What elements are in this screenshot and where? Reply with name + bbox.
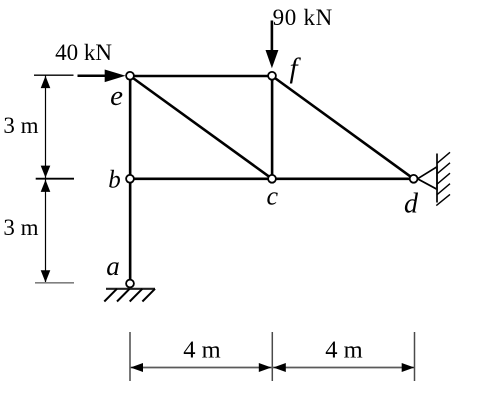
dimension line left (vertical) bbox=[45, 75, 47, 283]
svg-text:d: d bbox=[404, 188, 419, 219]
dim tick bottom bbox=[35, 282, 74, 284]
svg-text:3 m: 3 m bbox=[3, 215, 38, 240]
node c bbox=[268, 175, 276, 183]
dim arrowhead right at x=272 (left span) bbox=[259, 363, 272, 372]
force arrow 90 kN bbox=[266, 21, 279, 69]
svg-text:4 m: 4 m bbox=[325, 336, 362, 363]
dim arrowhead down at a level bbox=[41, 270, 51, 282]
node b bbox=[126, 175, 134, 183]
extension line below c/f column bbox=[271, 332, 273, 381]
dim tick top bbox=[34, 74, 74, 76]
dim arrowhead left at x=130 bbox=[131, 363, 144, 372]
extension line below d bbox=[414, 332, 416, 381]
pin support at a: hatching bbox=[104, 289, 155, 302]
dimension line bottom (horizontal) bbox=[130, 367, 415, 369]
node a bbox=[126, 280, 134, 288]
dim arrowhead down at b level bbox=[41, 166, 51, 178]
svg-text:b: b bbox=[108, 166, 121, 193]
svg-text:3 m: 3 m bbox=[3, 113, 38, 138]
pin support at a: ground line bbox=[106, 288, 155, 290]
node e bbox=[126, 72, 134, 80]
roller support at d: wall bbox=[436, 154, 438, 203]
dim tick middle bbox=[36, 178, 74, 180]
dim arrowhead right at x=414.5 bbox=[402, 363, 415, 372]
member eba (left column) bbox=[129, 76, 132, 284]
force arrow 40 kN bbox=[78, 70, 126, 83]
member ec (diagonal) bbox=[130, 76, 272, 179]
member fd (diagonal) bbox=[272, 76, 414, 179]
svg-text:4 m: 4 m bbox=[183, 336, 220, 363]
member bcd (bottom chord) bbox=[130, 178, 413, 181]
member ef (top chord) bbox=[130, 75, 272, 78]
roller support at d: hatching bbox=[436, 152, 450, 205]
node d bbox=[410, 175, 418, 183]
svg-text:90 kN: 90 kN bbox=[273, 5, 333, 30]
svg-text:40 kN: 40 kN bbox=[55, 40, 112, 65]
node f bbox=[268, 72, 276, 80]
member fc (vertical) bbox=[271, 76, 274, 179]
dim arrowhead up below b level bbox=[41, 180, 51, 192]
dim arrowhead left at x=272 (right span) bbox=[273, 363, 286, 372]
dim arrowhead up at e level bbox=[41, 76, 51, 88]
svg-text:a: a bbox=[106, 251, 120, 281]
svg-text:e: e bbox=[110, 80, 123, 112]
roller support at d: triangle bbox=[418, 167, 438, 190]
svg-text:c: c bbox=[267, 181, 279, 210]
extension line below a/b column bbox=[129, 332, 131, 381]
